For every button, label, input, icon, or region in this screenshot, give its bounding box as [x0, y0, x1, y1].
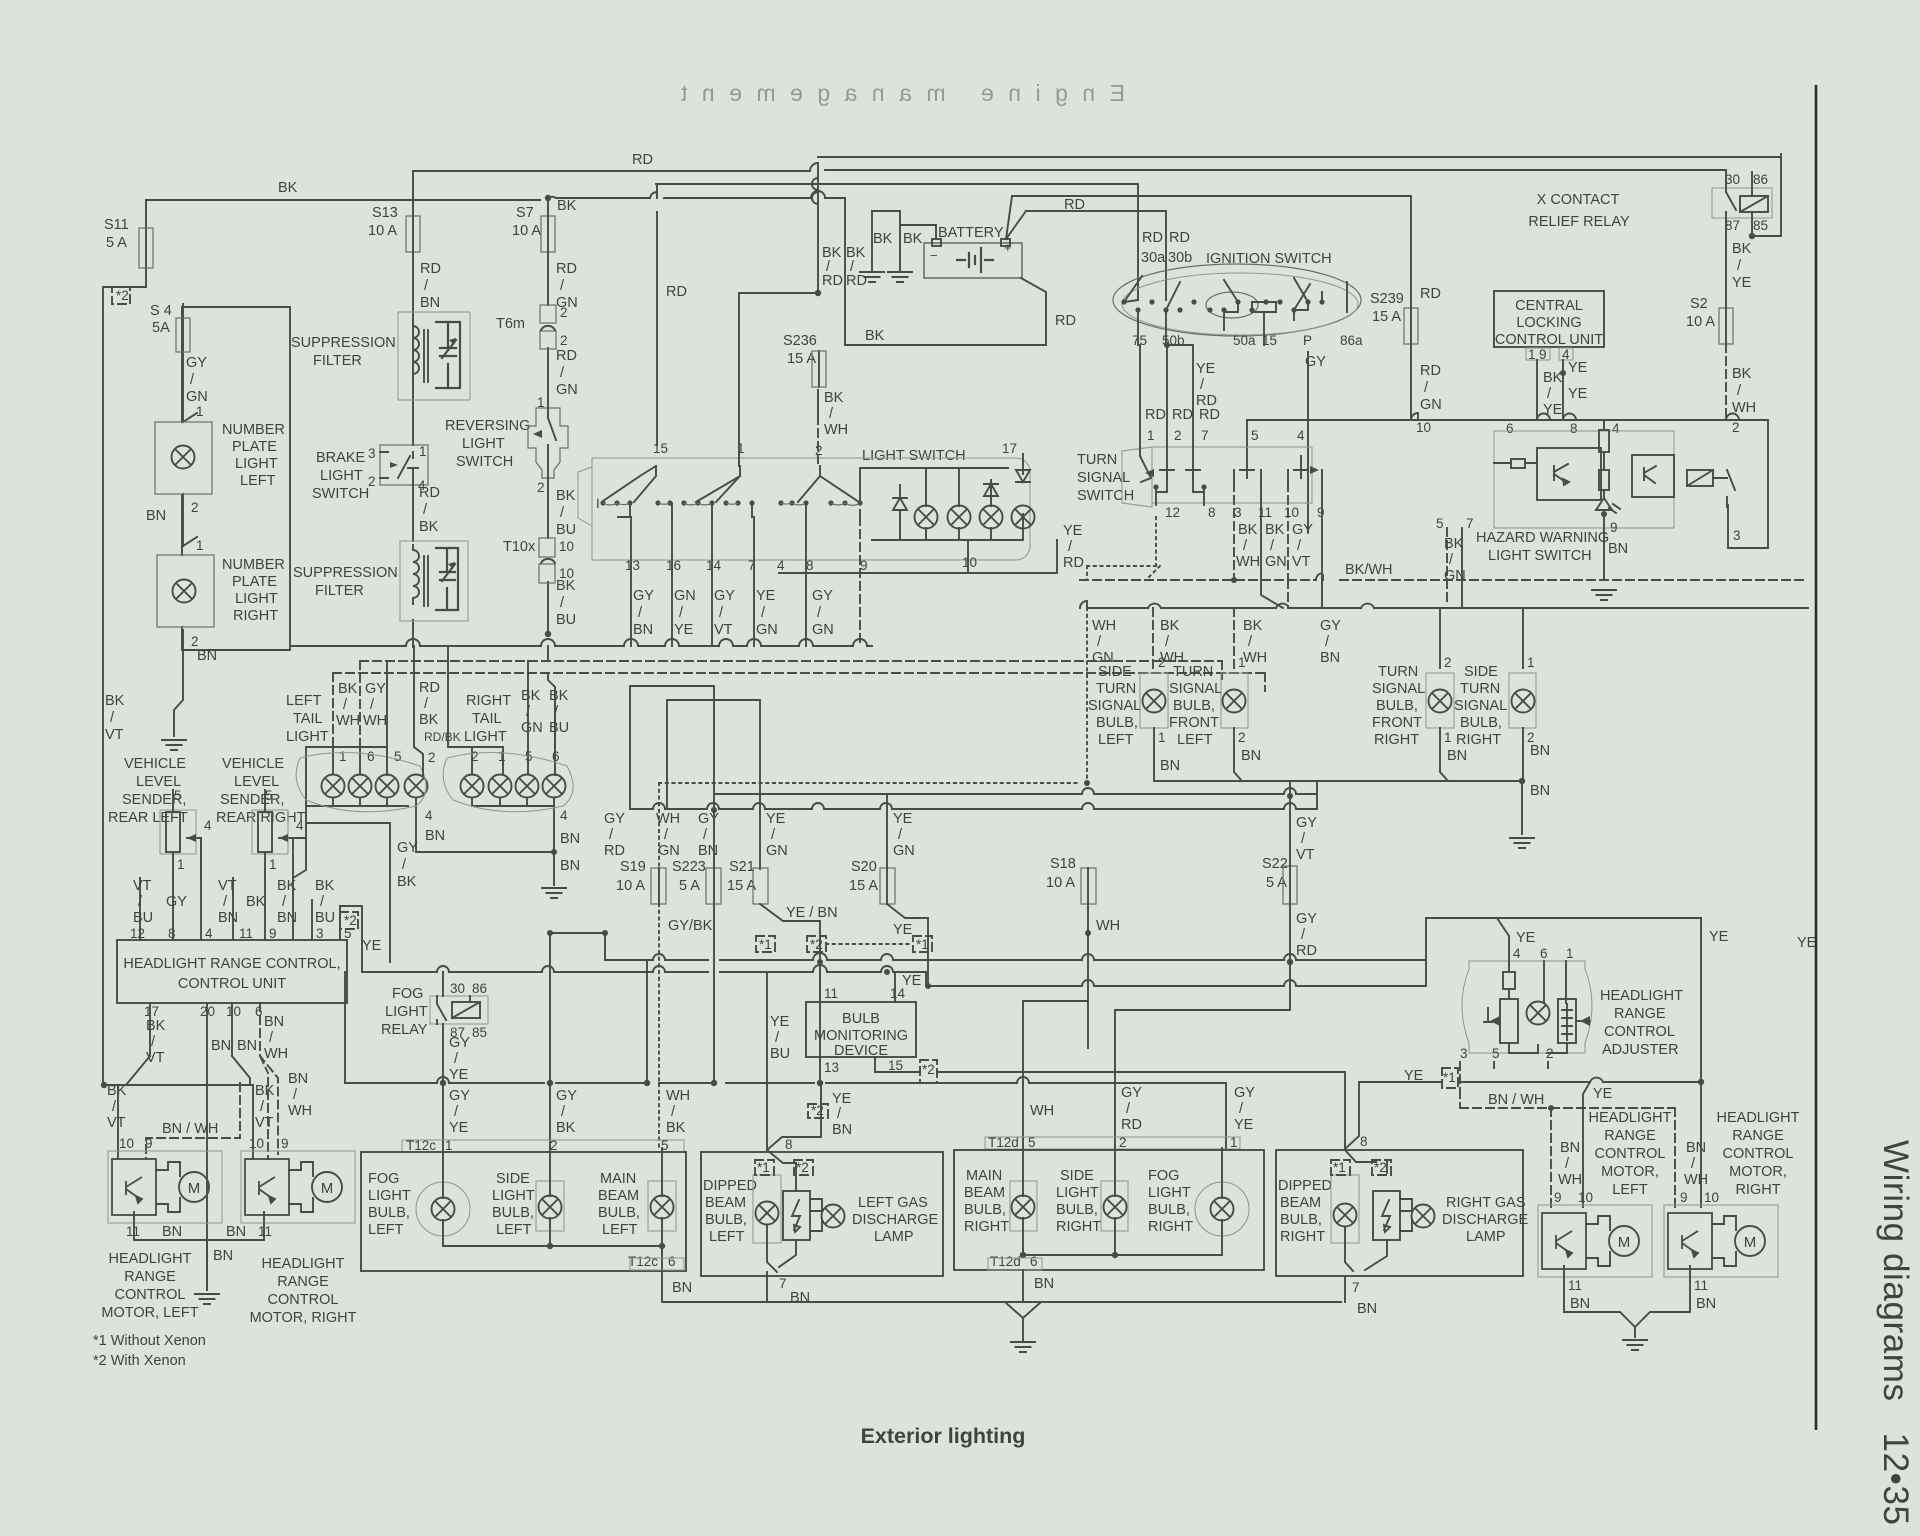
- svg-text:5 A: 5 A: [1266, 875, 1287, 891]
- svg-text:WH: WH: [288, 1103, 312, 1119]
- svg-text:RD: RD: [556, 348, 577, 364]
- svg-text:9: 9: [1610, 520, 1618, 535]
- svg-text:YE: YE: [1234, 1117, 1254, 1133]
- svg-text:GY: GY: [812, 588, 833, 604]
- svg-text:LIGHT: LIGHT: [462, 436, 505, 452]
- svg-text:SIGNAL: SIGNAL: [1454, 698, 1507, 714]
- svg-text:4: 4: [1612, 421, 1620, 436]
- bus 1083: [345, 960, 1226, 1148]
- svg-text:4: 4: [425, 808, 433, 823]
- svg-text:+: +: [1004, 240, 1012, 255]
- svg-text:RIGHT: RIGHT: [233, 608, 278, 624]
- svg-text:YE / BN: YE / BN: [786, 905, 838, 921]
- svg-text:WH: WH: [363, 713, 387, 729]
- svg-text:RD: RD: [1172, 407, 1193, 423]
- svg-text:*1: *1: [916, 937, 929, 952]
- svg-text:15: 15: [653, 441, 668, 456]
- svg-text:3: 3: [316, 926, 324, 941]
- svg-text:CONTROL: CONTROL: [115, 1287, 186, 1303]
- svg-text:10 A: 10 A: [1046, 875, 1075, 891]
- svg-text:*1: *1: [1443, 1070, 1456, 1085]
- svg-text:LIGHT: LIGHT: [464, 729, 507, 745]
- svg-text:11: 11: [239, 926, 253, 941]
- svg-text:GY: GY: [633, 588, 654, 604]
- ground headlamp clusters: [1010, 1342, 1036, 1352]
- svg-text:TURN: TURN: [1173, 664, 1213, 680]
- svg-text:LEFT: LEFT: [1177, 732, 1213, 748]
- svg-text:87: 87: [1725, 218, 1740, 233]
- page right border rule: [1815, 85, 1818, 1430]
- svg-text:SIDE: SIDE: [496, 1171, 530, 1187]
- svg-text:*1: *1: [757, 1160, 770, 1175]
- svg-text:BN: BN: [1570, 1296, 1590, 1312]
- svg-text:7: 7: [779, 1276, 787, 1291]
- central locking control unit: [1494, 291, 1604, 347]
- svg-text:BU: BU: [770, 1046, 790, 1062]
- svg-text:TURN: TURN: [1077, 452, 1117, 468]
- svg-text:4: 4: [1513, 946, 1521, 961]
- svg-text:10: 10: [962, 555, 977, 570]
- svg-text:86: 86: [472, 981, 487, 996]
- svg-text:7: 7: [1352, 1280, 1360, 1295]
- svg-text:BEAM: BEAM: [705, 1195, 746, 1211]
- svg-text:1: 1: [1566, 946, 1574, 961]
- svg-text:1: 1: [339, 749, 347, 764]
- svg-text:BK: BK: [315, 878, 335, 894]
- svg-text:BK: BK: [557, 198, 577, 214]
- svg-text:9: 9: [860, 558, 868, 573]
- svg-text:15: 15: [1262, 333, 1277, 348]
- svg-text:BULB,: BULB,: [1376, 698, 1418, 714]
- svg-text:BN: BN: [1530, 743, 1550, 759]
- svg-text:WH: WH: [1558, 1172, 1582, 1188]
- svg-text:BK: BK: [255, 1083, 275, 1099]
- svg-text:10 A: 10 A: [512, 223, 541, 239]
- svg-text:BN: BN: [213, 1248, 233, 1264]
- svg-text:5: 5: [1251, 428, 1259, 443]
- svg-text:LIGHT: LIGHT: [235, 591, 278, 607]
- svg-text:3: 3: [1234, 505, 1242, 520]
- svg-text:GY: GY: [449, 1035, 470, 1051]
- svg-text:LIGHT: LIGHT: [1056, 1185, 1099, 1201]
- svg-text:2: 2: [1546, 1046, 1554, 1061]
- svg-text:VT: VT: [1292, 554, 1311, 570]
- svg-text:RD: RD: [1420, 363, 1441, 379]
- svg-text:BULB,: BULB,: [1148, 1202, 1190, 1218]
- svg-text:HEADLIGHT: HEADLIGHT: [1717, 1110, 1800, 1126]
- svg-text:PLATE: PLATE: [232, 439, 277, 455]
- svg-text:FRONT: FRONT: [1169, 715, 1219, 731]
- svg-text:5: 5: [265, 788, 273, 803]
- headlight range control motor, left: [108, 1151, 222, 1223]
- svg-text:2: 2: [428, 750, 436, 765]
- svg-text:GN: GN: [658, 843, 680, 859]
- svg-text:30a: 30a: [1141, 250, 1166, 266]
- svg-text:BK: BK: [105, 693, 125, 709]
- svg-text:GN: GN: [556, 382, 578, 398]
- svg-text:BN: BN: [790, 1290, 810, 1306]
- svg-text:YE: YE: [1543, 402, 1563, 418]
- svg-text:LEFT: LEFT: [602, 1222, 638, 1238]
- svg-text:BN: BN: [1530, 783, 1550, 799]
- svg-text:MOTOR, LEFT: MOTOR, LEFT: [101, 1305, 198, 1321]
- svg-text:TURN: TURN: [1460, 681, 1500, 697]
- svg-text:2: 2: [1158, 655, 1166, 670]
- svg-text:*2: *2: [116, 288, 129, 303]
- svg-text:*2: *2: [344, 913, 357, 928]
- svg-text:*1: *1: [759, 937, 772, 952]
- svg-text:GN: GN: [674, 588, 696, 604]
- svg-text:GN: GN: [1444, 568, 1466, 584]
- svg-text:S236: S236: [783, 333, 817, 349]
- svg-text:1: 1: [1147, 428, 1155, 443]
- svg-text:GY: GY: [556, 1088, 577, 1104]
- svg-text:10: 10: [249, 1136, 264, 1151]
- svg-text:LIGHT SWITCH: LIGHT SWITCH: [862, 448, 966, 464]
- svg-text:5: 5: [1492, 1046, 1500, 1061]
- svg-text:GN: GN: [756, 622, 778, 638]
- svg-text:SWITCH: SWITCH: [456, 454, 513, 470]
- ground battery negative: [859, 272, 885, 282]
- svg-text:LIGHT: LIGHT: [368, 1188, 411, 1204]
- ground: [161, 740, 187, 750]
- svg-text:TAIL: TAIL: [293, 711, 323, 727]
- svg-text:BULB,: BULB,: [964, 1202, 1006, 1218]
- svg-text:BK: BK: [873, 231, 893, 247]
- svg-text:RD: RD: [1142, 230, 1163, 246]
- svg-text:8: 8: [785, 1137, 793, 1152]
- svg-text:RANGE: RANGE: [124, 1269, 176, 1285]
- SEC_DIAGRAM: [146, 216, 1726, 904]
- svg-text:*2: *2: [810, 937, 823, 952]
- svg-text:10: 10: [559, 539, 574, 554]
- svg-text:2: 2: [537, 480, 545, 495]
- svg-text:SIDE: SIDE: [1098, 664, 1132, 680]
- svg-text:VT: VT: [1296, 847, 1315, 863]
- svg-text:8: 8: [1360, 1134, 1368, 1149]
- svg-text:13: 13: [824, 1060, 839, 1075]
- svg-text:BN: BN: [425, 828, 445, 844]
- svg-text:13: 13: [625, 558, 640, 573]
- svg-text:DEVICE: DEVICE: [834, 1043, 888, 1059]
- svg-text:BEAM: BEAM: [598, 1188, 639, 1204]
- svg-text:6: 6: [1030, 1254, 1038, 1269]
- svg-text:BULB,: BULB,: [1096, 715, 1138, 731]
- svg-text:17: 17: [144, 1004, 159, 1019]
- svg-text:SUPPRESSION: SUPPRESSION: [293, 565, 398, 581]
- svg-text:DIPPED: DIPPED: [703, 1178, 757, 1194]
- svg-text:GY: GY: [698, 811, 719, 827]
- svg-text:BN: BN: [1447, 748, 1467, 764]
- svg-text:WH: WH: [1030, 1103, 1054, 1119]
- svg-text:BK: BK: [146, 1018, 166, 1034]
- svg-text:YE: YE: [1063, 523, 1083, 539]
- svg-text:S13: S13: [372, 205, 398, 221]
- svg-text:CONTROL UNIT: CONTROL UNIT: [178, 976, 286, 992]
- svg-text:SIDE: SIDE: [1060, 1168, 1094, 1184]
- svg-text:LAMP: LAMP: [874, 1229, 914, 1245]
- svg-text:BK: BK: [556, 1120, 576, 1136]
- svg-text:10: 10: [1284, 505, 1299, 520]
- svg-text:*1 Without Xenon: *1 Without Xenon: [93, 1333, 206, 1349]
- svg-text:YE: YE: [1593, 1086, 1613, 1102]
- svg-text:BN: BN: [146, 508, 166, 524]
- svg-text:BK/WH: BK/WH: [1345, 562, 1393, 578]
- svg-text:S22: S22: [1262, 856, 1288, 872]
- svg-text:BK: BK: [1160, 618, 1180, 634]
- svg-text:RIGHT GAS: RIGHT GAS: [1446, 1195, 1526, 1211]
- svg-text:GY: GY: [1292, 522, 1313, 538]
- svg-text:BK: BK: [549, 688, 569, 704]
- svg-text:5: 5: [1436, 516, 1444, 531]
- svg-text:GY: GY: [714, 588, 735, 604]
- svg-text:2: 2: [1444, 655, 1452, 670]
- svg-text:BK: BK: [822, 245, 842, 261]
- svg-text:RD: RD: [1296, 943, 1317, 959]
- svg-text:T12d: T12d: [990, 1254, 1021, 1269]
- svg-text:I: I: [596, 496, 600, 511]
- hazard warning light switch: [1494, 431, 1674, 528]
- svg-text:YE: YE: [1709, 929, 1729, 945]
- svg-text:10: 10: [1578, 1190, 1593, 1205]
- svg-text:MONITORING: MONITORING: [814, 1028, 908, 1044]
- svg-text:11: 11: [1694, 1278, 1708, 1293]
- svg-text:BN / WH: BN / WH: [162, 1121, 218, 1137]
- svg-text:WH: WH: [824, 422, 848, 438]
- svg-text:BATTERY: BATTERY: [938, 225, 1004, 241]
- svg-text:BN: BN: [1686, 1140, 1706, 1156]
- svg-text:P: P: [1303, 333, 1312, 348]
- svg-text:BN: BN: [633, 622, 653, 638]
- svg-text:HEADLIGHT: HEADLIGHT: [262, 1256, 345, 1272]
- lamp E3 number plate light left: [155, 422, 212, 494]
- svg-text:4: 4: [560, 808, 568, 823]
- svg-text:RELIEF RELAY: RELIEF RELAY: [1528, 214, 1630, 230]
- svg-text:2: 2: [560, 305, 568, 320]
- svg-text:*2 With Xenon: *2 With Xenon: [93, 1353, 186, 1369]
- svg-text:BN: BN: [277, 910, 297, 926]
- svg-text:8: 8: [806, 558, 814, 573]
- dipped beam bulb right + right gas discharge lamp: [1276, 1150, 1523, 1276]
- svg-text:LEFT: LEFT: [240, 473, 276, 489]
- svg-text:FOG: FOG: [368, 1171, 399, 1187]
- svg-text:FOG: FOG: [392, 986, 423, 1002]
- headlight range control, control unit: [117, 940, 347, 1003]
- svg-text:RD: RD: [846, 273, 867, 289]
- svg-text:GY: GY: [1296, 911, 1317, 927]
- side light bulb left: [536, 1181, 564, 1231]
- svg-text:YE: YE: [1797, 935, 1817, 951]
- svg-text:BN: BN: [264, 1014, 284, 1030]
- svg-text:2: 2: [1174, 428, 1182, 443]
- svg-text:BK: BK: [277, 878, 297, 894]
- svg-text:5 A: 5 A: [106, 235, 127, 251]
- svg-text:BN: BN: [1160, 758, 1180, 774]
- svg-text:1: 1: [1238, 655, 1246, 670]
- svg-text:4: 4: [777, 558, 785, 573]
- svg-text:GY: GY: [449, 1088, 470, 1104]
- svg-text:FILTER: FILTER: [315, 583, 364, 599]
- svg-text:30: 30: [1725, 172, 1740, 187]
- svg-text:WH: WH: [666, 1088, 690, 1104]
- svg-text:*2: *2: [811, 1103, 824, 1118]
- svg-text:5: 5: [174, 788, 182, 803]
- svg-text:9: 9: [269, 926, 277, 941]
- svg-text:VT: VT: [255, 1115, 274, 1131]
- svg-text:YE: YE: [1196, 361, 1216, 377]
- svg-text:LAMP: LAMP: [1466, 1229, 1506, 1245]
- svg-text:HAZARD WARNING: HAZARD WARNING: [1476, 530, 1609, 546]
- svg-text:BULB,: BULB,: [368, 1205, 410, 1221]
- svg-text:LIGHT: LIGHT: [1148, 1185, 1191, 1201]
- svg-text:RD: RD: [419, 485, 440, 501]
- svg-text:GN: GN: [812, 622, 834, 638]
- svg-text:3: 3: [1733, 528, 1741, 543]
- svg-text:12: 12: [130, 926, 145, 941]
- svg-text:BK: BK: [419, 519, 439, 535]
- svg-text:BN: BN: [1696, 1296, 1716, 1312]
- svg-text:10: 10: [1704, 1190, 1719, 1205]
- svg-text:BULB,: BULB,: [598, 1205, 640, 1221]
- svg-text:CENTRAL: CENTRAL: [1515, 298, 1583, 314]
- svg-text:GY: GY: [1121, 1085, 1142, 1101]
- svg-text:GY: GY: [186, 355, 207, 371]
- svg-text:BN: BN: [162, 1224, 182, 1240]
- + wires: [1006, 196, 1166, 345]
- svg-text:11: 11: [824, 986, 838, 1001]
- svg-text:10: 10: [1416, 420, 1431, 435]
- svg-text:9: 9: [281, 1136, 289, 1151]
- svg-text:GY: GY: [1296, 815, 1317, 831]
- ghost bleed-through text (faint): [675, 80, 1125, 106]
- svg-text:VT: VT: [133, 878, 152, 894]
- svg-text:YE: YE: [893, 922, 913, 938]
- svg-text:PLATE: PLATE: [232, 574, 277, 590]
- svg-text:S21: S21: [729, 859, 755, 875]
- svg-text:4: 4: [204, 818, 212, 833]
- svg-text:LEFT GAS: LEFT GAS: [858, 1195, 928, 1211]
- svg-text:11: 11: [126, 1224, 140, 1239]
- fog light bulb right: [1195, 1182, 1249, 1236]
- svg-text:10: 10: [226, 1004, 241, 1019]
- svg-text:RD: RD: [1121, 1117, 1142, 1133]
- svg-text:9: 9: [1680, 1190, 1688, 1205]
- svg-text:SIDE: SIDE: [1464, 664, 1498, 680]
- svg-text:8: 8: [1570, 421, 1578, 436]
- svg-text:5: 5: [394, 749, 402, 764]
- svg-text:RIGHT: RIGHT: [1456, 732, 1501, 748]
- svg-text:*2: *2: [922, 1062, 935, 1077]
- svg-text:BN: BN: [288, 1071, 308, 1087]
- svg-text:RIGHT: RIGHT: [1374, 732, 1419, 748]
- svg-text:30b: 30b: [1168, 250, 1192, 266]
- svg-text:X CONTACT: X CONTACT: [1537, 192, 1620, 208]
- svg-text:BULB,: BULB,: [705, 1212, 747, 1228]
- svg-text:RD: RD: [632, 152, 653, 168]
- svg-text:SENDER,: SENDER,: [220, 792, 284, 808]
- main beam bulb right: [1010, 1181, 1037, 1231]
- bulb monitoring device: [806, 1002, 916, 1057]
- svg-text:15: 15: [888, 1058, 903, 1073]
- svg-text:RIGHT: RIGHT: [466, 693, 511, 709]
- svg-text:2: 2: [1732, 420, 1740, 435]
- svg-text:BN: BN: [1357, 1301, 1377, 1317]
- dashed *boxes row: [756, 936, 775, 952]
- svg-text:2: 2: [191, 500, 199, 515]
- svg-text:T10x: T10x: [503, 539, 536, 555]
- headlight range control motor right (right pair): [1664, 1205, 1778, 1277]
- svg-text:BULB,: BULB,: [492, 1205, 534, 1221]
- svg-text:2: 2: [560, 333, 568, 348]
- svg-text:RD: RD: [556, 261, 577, 277]
- svg-text:BULB,: BULB,: [1460, 715, 1502, 731]
- svg-text:1: 1: [177, 857, 185, 872]
- svg-text:SWITCH: SWITCH: [312, 486, 369, 502]
- svg-text:VT: VT: [218, 878, 237, 894]
- svg-text:6: 6: [1540, 946, 1548, 961]
- svg-text:LIGHT: LIGHT: [385, 1004, 428, 1020]
- svg-text:GN: GN: [1265, 554, 1287, 570]
- ground HRC motors left pair: [194, 1294, 220, 1304]
- svg-text:4: 4: [1297, 428, 1305, 443]
- svg-text:DISCHARGE: DISCHARGE: [1442, 1212, 1529, 1228]
- svg-text:RD: RD: [1145, 407, 1166, 423]
- svg-text:YE: YE: [1568, 360, 1588, 376]
- svg-text:1: 1: [1527, 655, 1535, 670]
- svg-text:YE: YE: [1568, 386, 1588, 402]
- svg-text:SUPPRESSION: SUPPRESSION: [291, 335, 396, 351]
- svg-text:YE: YE: [1516, 930, 1536, 946]
- svg-text:WH: WH: [1096, 918, 1120, 934]
- svg-text:BN: BN: [1241, 748, 1261, 764]
- svg-text:LEFT: LEFT: [368, 1222, 404, 1238]
- svg-text:DIPPED: DIPPED: [1278, 1178, 1332, 1194]
- svg-text:BU: BU: [133, 910, 153, 926]
- svg-text:BK: BK: [824, 390, 844, 406]
- svg-text:6: 6: [255, 1004, 263, 1019]
- svg-text:FRONT: FRONT: [1372, 715, 1422, 731]
- svg-text:LEFT: LEFT: [496, 1222, 532, 1238]
- svg-text:BK: BK: [1444, 536, 1464, 552]
- svg-text:LIGHT: LIGHT: [286, 729, 329, 745]
- svg-text:GN: GN: [893, 843, 915, 859]
- svg-text:BU: BU: [556, 522, 576, 538]
- svg-text:LEFT: LEFT: [1098, 732, 1134, 748]
- svg-text:RD: RD: [1420, 286, 1441, 302]
- svg-text:YE: YE: [766, 811, 786, 827]
- svg-text:4: 4: [205, 926, 213, 941]
- headlight range control motor, right: [241, 1151, 355, 1223]
- number plate lights enclosure: [182, 307, 290, 650]
- brake light switch: [380, 445, 428, 485]
- svg-text:LIGHT: LIGHT: [235, 456, 278, 472]
- svg-text:50a: 50a: [1233, 333, 1256, 348]
- svg-text:RANGE: RANGE: [1732, 1128, 1784, 1144]
- svg-text:BEAM: BEAM: [964, 1185, 1005, 1201]
- svg-text:YE: YE: [449, 1067, 469, 1083]
- svg-text:S 4: S 4: [150, 303, 172, 319]
- svg-text:WH: WH: [1243, 650, 1267, 666]
- svg-text:YE: YE: [756, 588, 776, 604]
- svg-text:CONTROL: CONTROL: [268, 1292, 339, 1308]
- ground turn signal bulbs: [1509, 838, 1535, 848]
- variant box *2: [112, 287, 130, 304]
- svg-text:15 A: 15 A: [1372, 309, 1401, 325]
- svg-text:MOTOR,: MOTOR,: [1729, 1164, 1787, 1180]
- svg-text:S2: S2: [1690, 296, 1708, 312]
- svg-text:MOTOR, RIGHT: MOTOR, RIGHT: [250, 1310, 357, 1326]
- svg-text:CONTROL: CONTROL: [1723, 1146, 1794, 1162]
